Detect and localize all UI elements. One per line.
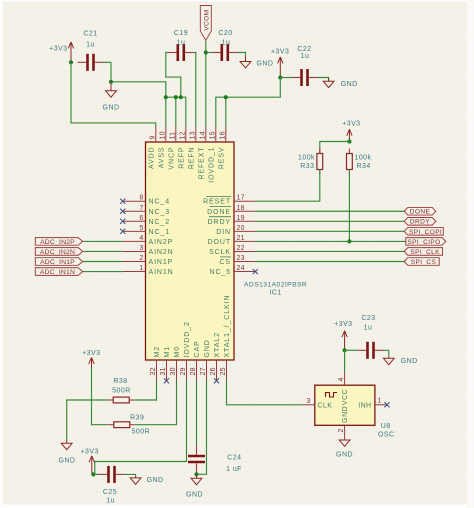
svg-text:SPI_CLK: SPI_CLK xyxy=(410,249,440,256)
no-connect OSC INH xyxy=(384,402,389,407)
svg-text:13: 13 xyxy=(189,131,196,139)
svg-text:IC1: IC1 xyxy=(270,290,282,297)
svg-text:+3V3: +3V3 xyxy=(82,350,100,357)
capacitor C23 xyxy=(358,342,384,359)
power +3V3 (R33/R34) xyxy=(347,129,352,141)
OSC pin 2 GND stub xyxy=(344,425,346,439)
svg-text:10: 10 xyxy=(159,131,166,139)
svg-text:RESET: RESET xyxy=(203,199,231,206)
hier label DONE xyxy=(404,207,436,215)
pin 1 AIN1N stub xyxy=(123,271,146,273)
svg-text:SCLK: SCLK xyxy=(209,249,231,256)
svg-text:AVDD: AVDD xyxy=(148,147,155,170)
svg-text:GND: GND xyxy=(342,406,349,423)
svg-text:DRDY: DRDY xyxy=(410,219,430,226)
svg-text:24: 24 xyxy=(237,265,245,272)
pin 10 AVSS stub xyxy=(165,126,167,142)
wire pin25 to OSC CLK xyxy=(227,381,303,405)
wire pin 19 to label xyxy=(255,220,404,222)
capacitor C19 xyxy=(168,44,194,61)
svg-text:+3V3: +3V3 xyxy=(81,449,99,456)
wire AVDD rail: +3V3 down to pin 9 xyxy=(71,62,156,126)
junction +3V3/C21 xyxy=(69,60,73,64)
svg-text:C20: C20 xyxy=(218,30,232,37)
svg-text:VCC: VCC xyxy=(342,389,349,405)
wire pin28 to C24 xyxy=(196,381,198,447)
no-connect pin 7 xyxy=(120,209,125,214)
wire ground row xyxy=(166,97,186,126)
junction C24/GND xyxy=(194,472,198,476)
junction VCOM node xyxy=(204,50,208,54)
junction pin16 xyxy=(224,95,228,99)
pin 17 RESET stub xyxy=(234,200,255,202)
svg-text:C21: C21 xyxy=(83,31,97,38)
pin 31 M1 stub xyxy=(166,360,168,381)
svg-text:GND: GND xyxy=(59,458,76,465)
ground (OSC) xyxy=(339,440,350,447)
junction +3V3/C22 xyxy=(278,75,282,79)
OSC pin 4 VCC stub xyxy=(344,372,346,385)
resistor R34 xyxy=(347,149,353,175)
wire R33 to RESET row xyxy=(255,170,319,202)
ground (C22) xyxy=(323,78,334,88)
wire +3V3 to C22 xyxy=(280,77,291,79)
svg-text:DIN: DIN xyxy=(216,229,231,236)
svg-text:VNCP: VNCP xyxy=(168,147,175,170)
svg-text:DONE: DONE xyxy=(410,209,431,216)
resistor R39 xyxy=(109,422,135,428)
ground (C21) xyxy=(106,82,117,97)
svg-text:15: 15 xyxy=(209,131,216,139)
pin 12 REFP stub xyxy=(185,126,187,142)
no-connect pin 26 xyxy=(214,378,219,383)
svg-text:4: 4 xyxy=(139,235,143,242)
svg-text:NC_5: NC_5 xyxy=(210,269,232,276)
svg-text:500R: 500R xyxy=(112,388,131,395)
hier label SPI_CLK xyxy=(404,248,442,256)
svg-text:14: 14 xyxy=(199,131,206,139)
no-connect pin 31 xyxy=(164,378,169,383)
svg-text:ADC_IN1N: ADC_IN1N xyxy=(40,269,75,276)
svg-text:4: 4 xyxy=(338,377,345,381)
pin 2 AIN1P stub xyxy=(123,261,146,263)
svg-text:1u: 1u xyxy=(301,53,310,60)
svg-text:8: 8 xyxy=(139,195,143,202)
wire C25 left xyxy=(93,473,98,475)
svg-text:27: 27 xyxy=(200,367,207,375)
svg-text:30: 30 xyxy=(170,367,177,375)
OSC pin 1 INH stub xyxy=(375,404,387,406)
wire VCOM to C20 xyxy=(206,52,212,54)
svg-text:1u: 1u xyxy=(364,324,373,331)
ground (C20) xyxy=(240,57,251,68)
wire GND to row xyxy=(111,82,166,97)
hier label ADC_IN1P xyxy=(35,258,82,266)
hier label ADC_IN1N xyxy=(35,268,82,276)
svg-text:31: 31 xyxy=(160,367,167,375)
OSC pin 3 CLK stub xyxy=(302,404,315,406)
hier label VCOM xyxy=(200,6,211,41)
wire C19 right to pin 13 xyxy=(194,53,196,127)
svg-text:IOVDD_1: IOVDD_1 xyxy=(208,147,215,183)
svg-text:ADC_IN1P: ADC_IN1P xyxy=(40,259,75,266)
svg-text:IOVDD_2: IOVDD_2 xyxy=(184,321,191,357)
capacitor C22 xyxy=(292,69,318,86)
wire pin 10 drop xyxy=(165,97,167,126)
wire pin27 GND xyxy=(197,381,207,475)
svg-text:M0: M0 xyxy=(174,346,181,358)
power +3V3 (C21) xyxy=(68,42,73,62)
svg-text:19: 19 xyxy=(237,215,245,222)
power +3V3 (C23) xyxy=(342,331,347,351)
svg-text:500R: 500R xyxy=(132,429,151,436)
svg-text:32: 32 xyxy=(150,367,157,375)
hier label ADC_IN2N xyxy=(35,248,82,256)
no-connect pin 6 xyxy=(120,219,125,224)
pin 24 NC_5 stub xyxy=(234,271,255,273)
svg-text:GND: GND xyxy=(341,81,358,88)
pin 23 CS stub xyxy=(234,261,255,263)
wire pin29 IOVDD_2 rail xyxy=(95,381,187,475)
wire ADC_IN1P to pin 2 xyxy=(83,261,123,263)
no-connect pin 5 xyxy=(120,229,125,234)
pin 4 AIN2P stub xyxy=(123,240,146,242)
ground (C24) xyxy=(191,474,202,484)
svg-text:REFEXT: REFEXT xyxy=(198,147,205,180)
wire pin 21 to label xyxy=(255,240,405,242)
junction GND node xyxy=(109,80,113,84)
svg-text:C22: C22 xyxy=(297,46,311,53)
pin 26 XTAL2 stub xyxy=(216,360,218,381)
capacitor C25 xyxy=(99,466,125,483)
svg-text:R38: R38 xyxy=(113,378,127,385)
junction +3V3/C23 xyxy=(343,348,347,352)
svg-text:XTAL2: XTAL2 xyxy=(214,332,221,357)
svg-text:5: 5 xyxy=(139,225,143,232)
svg-text:12: 12 xyxy=(179,131,186,139)
wire C21 right to GND node xyxy=(104,61,112,63)
power +3V3 (C25) xyxy=(89,456,94,474)
svg-text:23: 23 xyxy=(237,255,245,262)
svg-text:AIN2N: AIN2N xyxy=(149,249,174,256)
svg-text:CLK: CLK xyxy=(318,402,333,409)
svg-text:GND: GND xyxy=(401,358,418,365)
pin 15 IOVDD_1 stub xyxy=(215,126,217,142)
wire R34 down to CIPO row xyxy=(348,170,350,242)
svg-text:3: 3 xyxy=(306,398,310,405)
wire C19 left jog xyxy=(166,53,181,98)
wire pin32 to R38 xyxy=(134,381,156,401)
hier label ADC_IN2P xyxy=(35,238,82,246)
capacitor C24 xyxy=(188,446,205,472)
hier label SPI_CIPO xyxy=(406,238,446,246)
svg-text:17: 17 xyxy=(237,195,245,202)
svg-text:ADC_IN2N: ADC_IN2N xyxy=(40,249,75,256)
wire ADC_IN1N to pin 1 xyxy=(83,271,123,273)
svg-text:U8: U8 xyxy=(381,423,391,430)
junction +3V3/C25 xyxy=(91,472,95,476)
pin 14 REFEXT stub xyxy=(205,126,207,142)
wire pin16 drop xyxy=(225,97,227,126)
svg-text:+3V3: +3V3 xyxy=(49,46,67,53)
wire VCOM to pin 14 xyxy=(205,40,207,126)
svg-text:100k: 100k xyxy=(298,155,315,162)
capacitor C21 xyxy=(78,54,104,71)
wire C23 right to gnd xyxy=(384,350,389,356)
svg-text:+3V3: +3V3 xyxy=(334,321,352,328)
svg-text:VCOM: VCOM xyxy=(203,9,210,30)
svg-text:29: 29 xyxy=(180,367,187,375)
pin 3 AIN2N stub xyxy=(123,250,146,252)
wire R39 to pin30 xyxy=(135,381,177,425)
ground (R38) xyxy=(61,441,72,450)
svg-text:GND: GND xyxy=(186,492,203,499)
svg-text:OSC: OSC xyxy=(378,432,395,439)
junction row C19 xyxy=(179,95,183,99)
svg-text:C23: C23 xyxy=(361,315,375,322)
svg-text:1u: 1u xyxy=(222,40,231,47)
pin 20 DIN stub xyxy=(234,230,255,232)
junction row pin11 xyxy=(174,95,178,99)
svg-text:NC_2: NC_2 xyxy=(149,219,171,226)
wire ADC_IN2P to pin 4 xyxy=(83,240,123,242)
pin 25 XTAL1_/_CLKIN stub xyxy=(226,360,228,381)
svg-text:22: 22 xyxy=(237,245,245,252)
svg-text:CS: CS xyxy=(219,259,231,266)
wire pin 23 to label xyxy=(255,261,404,263)
svg-text:XTAL1_/_CLKIN: XTAL1_/_CLKIN xyxy=(224,295,231,358)
resistor R38 xyxy=(108,397,134,403)
svg-text:NC_1: NC_1 xyxy=(149,229,171,236)
svg-text:1u: 1u xyxy=(106,497,115,504)
junction R34/DOUT xyxy=(347,239,351,243)
pin 9 AVDD stub xyxy=(155,126,157,142)
svg-text:SPI_CIPO: SPI_CIPO xyxy=(407,239,440,246)
svg-text:26: 26 xyxy=(210,367,217,375)
svg-text:3: 3 xyxy=(139,245,143,252)
svg-text:CAP: CAP xyxy=(194,340,201,357)
svg-text:ADS131A02IPBSR: ADS131A02IPBSR xyxy=(244,282,307,289)
svg-text:GND: GND xyxy=(257,61,274,68)
svg-text:+3V3: +3V3 xyxy=(342,121,360,128)
no-connect pin 8 xyxy=(120,199,125,204)
svg-text:GND: GND xyxy=(103,105,120,112)
pin 5 NC_1 stub xyxy=(123,230,146,232)
svg-text:R39: R39 xyxy=(130,415,144,422)
hier label SPI_COPI xyxy=(404,228,443,236)
svg-text:25: 25 xyxy=(220,367,227,375)
pin 6 NC_2 stub xyxy=(123,220,146,222)
no-connect pin 24 xyxy=(253,269,258,274)
svg-text:GND: GND xyxy=(147,477,164,484)
wire pin 18 to label xyxy=(255,210,404,212)
wire C24 bottom xyxy=(196,472,198,474)
svg-text:21: 21 xyxy=(237,235,245,242)
pin 30 M0 stub xyxy=(176,360,178,381)
wire +3V3 to C23 xyxy=(345,349,358,351)
svg-text:M2: M2 xyxy=(154,346,161,358)
pin 8 NC_4 stub xyxy=(123,200,146,202)
pin 13 REFN stub xyxy=(195,126,197,142)
svg-text:1: 1 xyxy=(139,265,143,272)
oscillator U8 body xyxy=(315,385,375,425)
svg-text:GND: GND xyxy=(336,452,353,459)
svg-text:SPI_COPI: SPI_COPI xyxy=(409,229,442,236)
svg-text:+3V3: +3V3 xyxy=(271,49,289,56)
pin 22 SCLK stub xyxy=(234,250,255,252)
svg-text:DOUT: DOUT xyxy=(208,239,231,246)
ground (C23) xyxy=(383,356,394,364)
svg-text:REFP: REFP xyxy=(178,147,185,169)
power +3V3 (R39) xyxy=(89,358,94,371)
hier label DRDY xyxy=(404,218,436,226)
svg-text:11: 11 xyxy=(169,132,176,140)
svg-text:DONE: DONE xyxy=(207,209,231,216)
pin 11 VNCP stub xyxy=(175,126,177,142)
pin 7 NC_3 stub xyxy=(123,210,146,212)
wire C22 right to gnd xyxy=(318,78,329,81)
power +3V3 (C22) xyxy=(278,57,283,78)
wire R38 to gnd xyxy=(67,400,108,441)
wire +3V3 to OSC VCC xyxy=(344,350,346,372)
svg-text:16: 16 xyxy=(219,131,226,139)
pin 32 M2 stub xyxy=(156,360,158,381)
svg-text:C19: C19 xyxy=(174,30,188,37)
pin 18 DONE stub xyxy=(234,210,255,212)
junction +3V3 R34 xyxy=(347,139,351,143)
svg-text:1: 1 xyxy=(377,397,381,404)
OSC square-wave glyph xyxy=(326,393,338,398)
wire +3V3 to R33 xyxy=(320,142,350,154)
resistor R33 xyxy=(317,149,323,175)
svg-text:6: 6 xyxy=(139,215,143,222)
op-amp U1 : ADC IC1 body xyxy=(146,142,235,360)
svg-text:2: 2 xyxy=(338,428,345,432)
svg-text:20: 20 xyxy=(237,225,245,232)
pin 16 RESV stub xyxy=(225,126,227,142)
ground (C25) xyxy=(130,477,141,485)
svg-text:C25: C25 xyxy=(103,489,117,496)
svg-text:SPI_CS: SPI_CS xyxy=(411,259,437,266)
wire ADC_IN2N to pin 3 xyxy=(83,250,123,252)
svg-text:AIN1N: AIN1N xyxy=(149,269,174,276)
svg-text:28: 28 xyxy=(190,367,197,375)
svg-text:C24: C24 xyxy=(227,455,241,462)
pin 21 DOUT stub xyxy=(234,240,255,242)
svg-text:R33: R33 xyxy=(300,163,314,170)
svg-text:100k: 100k xyxy=(355,155,372,162)
svg-text:AIN1P: AIN1P xyxy=(149,259,174,266)
pin 29 IOVDD_2 stub xyxy=(186,360,188,381)
svg-text:AVSS: AVSS xyxy=(158,147,165,169)
svg-text:7: 7 xyxy=(139,205,143,212)
svg-text:R34: R34 xyxy=(357,163,371,170)
capacitor C20 xyxy=(212,44,238,61)
svg-text:M1: M1 xyxy=(164,346,171,358)
junction row pin10 xyxy=(164,95,168,99)
svg-text:AIN2P: AIN2P xyxy=(149,239,174,246)
wire pin 11 drop xyxy=(175,97,177,126)
wire pin 20 to label xyxy=(255,230,404,232)
svg-text:GND: GND xyxy=(204,339,211,357)
hier label SPI_CS xyxy=(404,258,439,266)
svg-text:1u: 1u xyxy=(177,40,186,47)
svg-text:INH: INH xyxy=(358,402,371,409)
svg-text:RESV: RESV xyxy=(218,147,225,170)
wire C20 right to gnd xyxy=(238,53,246,57)
wire IOVDD rail xyxy=(216,78,280,127)
svg-text:2: 2 xyxy=(139,255,143,262)
pin 28 CAP stub xyxy=(196,360,198,381)
svg-text:REFN: REFN xyxy=(188,147,195,170)
svg-text:1 uF: 1 uF xyxy=(226,466,242,473)
wire C25 right to gnd xyxy=(125,474,136,477)
pin 27 GND stub xyxy=(206,360,208,381)
wire +3V3 to R39 xyxy=(92,368,109,425)
svg-text:DRDY: DRDY xyxy=(208,219,231,226)
svg-text:9: 9 xyxy=(149,135,156,139)
svg-text:18: 18 xyxy=(237,205,245,212)
svg-text:NC_3: NC_3 xyxy=(149,209,171,216)
pin 19 DRDY stub xyxy=(234,220,255,222)
svg-text:1u: 1u xyxy=(86,42,95,49)
svg-text:NC_4: NC_4 xyxy=(149,199,171,206)
wire pin 22 to label xyxy=(255,250,404,252)
svg-text:ADC_IN2P: ADC_IN2P xyxy=(40,239,75,246)
